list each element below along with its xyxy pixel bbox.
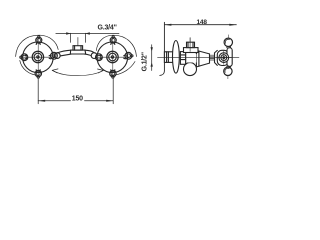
bottom knob, side view	[227, 65, 231, 68]
wall nipple with threads, side view	[164, 52, 173, 63]
dimension G.1/2 vertical line	[151, 45, 153, 71]
handle hub housing, side view	[217, 50, 228, 65]
hub crosshair, side view	[223, 51, 225, 65]
arrowhead bottom of G.1/2 dimension	[151, 62, 153, 66]
top outlet base flange, front view	[70, 50, 85, 54]
right handle outer escutcheon arc top	[96, 35, 136, 56]
left handle north knob	[38, 36, 40, 38]
left handle flange circle	[23, 42, 54, 73]
right handle outer escutcheon arc bottom	[111, 62, 135, 76]
arrowhead right of 148 dimension	[229, 24, 236, 26]
main body block, side view	[185, 49, 196, 63]
left handle south knob	[37, 76, 39, 78]
dimension 150 line and extension lines	[38, 78, 113, 104]
right handle flange circle	[97, 42, 128, 73]
wall line with bottom hook, side view	[160, 22, 165, 75]
right bridge union circle	[91, 53, 97, 59]
bridge tube lower edge left	[60, 54, 71, 56]
handle bell, side view	[215, 50, 218, 65]
left handle centerlines	[22, 38, 55, 78]
bridge tube upper edge left	[57, 50, 70, 53]
curved double arrow between handles	[52, 70, 103, 75]
right handle south knob	[112, 76, 114, 78]
svg-text:G.3/4": G.3/4"	[98, 24, 117, 31]
right handle north knob	[112, 36, 114, 38]
valve stem spline lines	[210, 55, 215, 60]
bridge tube upper edge right	[85, 50, 94, 53]
arrowhead left of G.3/4 dimension	[66, 32, 70, 34]
svg-text:G.1/2": G.1/2"	[142, 52, 149, 71]
arrowhead right of 150 dimension	[106, 100, 113, 102]
top outlet threaded neck, front view	[73, 46, 83, 50]
left handle hub concentric circles	[32, 51, 43, 62]
right handle arm necks	[100, 43, 125, 72]
centerline above top outlet, front view	[77, 38, 79, 46]
arrowhead left of 148 dimension	[164, 24, 171, 26]
dimension 148 line	[164, 24, 236, 26]
top knob, side view	[227, 46, 231, 48]
svg-text:148: 148	[197, 19, 208, 26]
top knob center tick	[227, 35, 229, 38]
wall flange ellipse, side view	[173, 41, 180, 74]
union nut, side view	[180, 52, 185, 65]
right handle centerlines	[96, 38, 130, 78]
top outlet centerline, side view	[189, 38, 191, 43]
bridge tube lower edge right	[85, 54, 92, 56]
svg-text:150: 150	[72, 95, 83, 102]
left handle outer escutcheon arc top	[16, 35, 59, 56]
right handle east knob	[131, 55, 133, 57]
bottom knob center tick	[227, 76, 229, 79]
dimension G.3/4 line and extension lines	[56, 33, 119, 42]
left handle outer escutcheon arc bottom	[20, 61, 39, 76]
arrowhead left of 150 dimension	[38, 100, 45, 102]
left handle arm necks	[26, 43, 51, 72]
top outlet wide flange, side view	[184, 48, 199, 53]
left bridge union circle	[54, 53, 60, 59]
arrowhead top of G.1/2 dimension	[151, 47, 153, 51]
top outlet centerline through neck, side view	[189, 38, 191, 52]
handle cross bar, side view	[227, 48, 232, 67]
arrowhead right of G.3/4 dimension	[85, 32, 89, 34]
right handle west knob	[96, 54, 103, 61]
side view horizontal centerline	[158, 56, 240, 58]
right handle hub concentric circles	[107, 51, 118, 62]
cone toward handle, side view	[196, 50, 209, 67]
left handle west knob	[20, 56, 22, 58]
top outlet threaded neck, side view	[187, 42, 195, 47]
left handle east knob	[51, 52, 58, 59]
handle hub concentric circles, side view	[219, 53, 229, 63]
spherical body, side view	[184, 63, 197, 76]
